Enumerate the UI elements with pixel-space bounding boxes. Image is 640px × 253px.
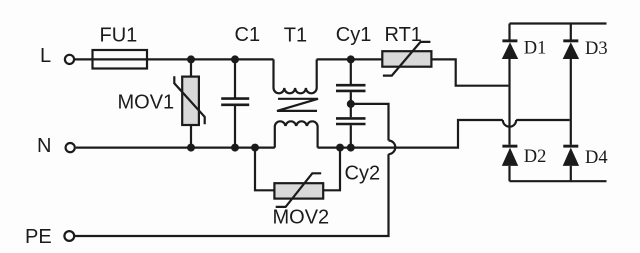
- wire hop over N rail: [389, 141, 396, 155]
- wire L rail (L terminal to T1, through FU1): [75, 58, 274, 60]
- svg-text:PE: PE: [25, 226, 52, 248]
- svg-text:D2: D2: [524, 147, 547, 167]
- node: Cy1/Cy2 midpoint: [347, 100, 355, 108]
- diode D4: [563, 145, 579, 166]
- wire MOV2 left lead: [255, 148, 274, 191]
- wire hop over bridge left branch: [503, 120, 516, 127]
- wire N rail (N terminal to T1): [76, 147, 275, 149]
- svg-text:C1: C1: [235, 24, 261, 46]
- svg-text:D4: D4: [585, 148, 608, 168]
- svg-text:D1: D1: [524, 39, 547, 59]
- diode D2: [502, 145, 518, 166]
- wire L rail T1 to RT1: [317, 58, 383, 60]
- node: L/C1 junction: [231, 55, 239, 63]
- svg-text:RT1: RT1: [385, 24, 422, 46]
- node: N/MOV1 junction: [187, 144, 195, 152]
- capacitor C1: [221, 59, 249, 147]
- fuse FU1: [93, 50, 148, 69]
- svg-text:FU1: FU1: [100, 24, 138, 46]
- wire MOV2 right lead: [323, 148, 340, 191]
- wire N rail T1 to bridge (with step up): [318, 120, 503, 148]
- wire MOV1 bottom lead: [190, 125, 192, 148]
- svg-text:T1: T1: [284, 24, 307, 46]
- varistor MOV2: [274, 173, 323, 207]
- svg-text:D3: D3: [585, 39, 608, 59]
- node: N/MOV2 right junction: [336, 144, 344, 152]
- capacitor Cy2: [336, 118, 366, 147]
- svg-text:N: N: [37, 135, 51, 157]
- wire PE vertical and PE rail: [75, 154, 389, 236]
- capacitor Cy1: [336, 59, 366, 117]
- svg-text:Cy2: Cy2: [345, 163, 381, 185]
- diode D1: [502, 39, 518, 59]
- svg-text:MOV1: MOV1: [118, 91, 175, 113]
- thermistor RT1: [382, 42, 431, 76]
- wire hop to bridge right branch: [516, 119, 570, 121]
- varistor MOV1: [174, 76, 204, 125]
- terminal N: [66, 143, 75, 152]
- svg-text:Cy1: Cy1: [336, 24, 372, 46]
- node: L/Cy1 junction: [347, 55, 355, 63]
- choke T1 top winding: [274, 59, 317, 93]
- svg-text:L: L: [40, 45, 51, 67]
- node: N/C1 junction: [231, 144, 239, 152]
- svg-text:MOV2: MOV2: [273, 207, 330, 229]
- diode D3: [563, 39, 579, 59]
- node: N/MOV2 left junction: [251, 144, 259, 152]
- terminal L: [65, 55, 74, 64]
- bridge top rail: [510, 22, 607, 24]
- bridge right branch wire: [570, 24, 572, 182]
- bridge bottom rail: [510, 180, 607, 182]
- choke T1 bottom winding: [275, 121, 318, 147]
- terminal PE: [64, 231, 74, 241]
- node: L/MOV1 junction: [187, 55, 195, 63]
- wire RT1 to bridge left branch: [431, 59, 508, 85]
- wire Cy midpoint to PE vertical: [351, 104, 389, 141]
- node: N/Cy2 junction: [347, 144, 355, 152]
- wire MOV1 top lead: [190, 59, 192, 76]
- choke T1 core: [277, 99, 318, 111]
- bridge left branch wire: [508, 24, 510, 182]
